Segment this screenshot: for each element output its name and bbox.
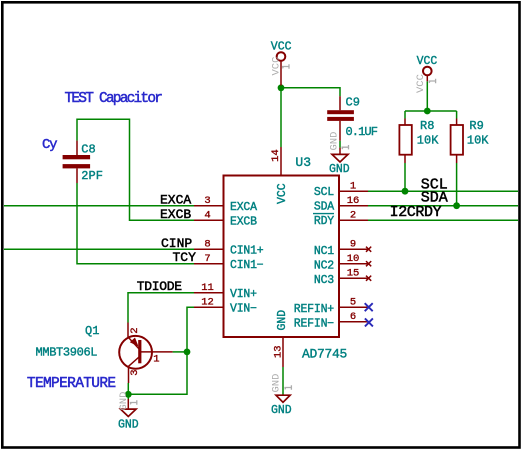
svg-text:EXCA: EXCA — [160, 192, 191, 207]
svg-text:SCL: SCL — [314, 186, 334, 199]
svg-text:1: 1 — [350, 181, 356, 193]
svg-text:4: 4 — [204, 210, 210, 222]
no-connect X pin6 — [365, 318, 373, 326]
pin 1 SCL — [339, 190, 368, 192]
no-connect x pin9 — [366, 247, 371, 252]
svg-text:TCY: TCY — [173, 250, 197, 265]
svg-text:7: 7 — [204, 253, 210, 265]
svg-text:15: 15 — [347, 268, 360, 280]
svg-text:CIN1−: CIN1− — [230, 259, 264, 272]
wire IC pin13 to gnd — [282, 367, 284, 395]
pin 10 NC2 — [339, 263, 368, 265]
node junction R9-SDA — [453, 202, 460, 209]
svg-text:VCC: VCC — [271, 40, 292, 53]
wire VCC right vertical — [426, 81, 428, 111]
svg-text:MMBT3906L: MMBT3906L — [36, 346, 98, 360]
ground symbol under Q1 — [118, 399, 139, 431]
svg-text:REFIN+: REFIN+ — [294, 303, 335, 316]
svg-text:VCC: VCC — [417, 55, 438, 68]
svg-text:TEMPERATURE: TEMPERATURE — [27, 376, 116, 392]
svg-text:TDIODE: TDIODE — [137, 279, 183, 294]
svg-text:U3: U3 — [295, 155, 311, 170]
pin 2 RDY — [339, 219, 368, 221]
svg-text:2: 2 — [129, 327, 141, 333]
svg-text:R8: R8 — [420, 119, 434, 133]
svg-text:EXCB: EXCB — [160, 207, 191, 222]
svg-text:GND: GND — [271, 374, 283, 393]
svg-text:REFIN−: REFIN− — [294, 317, 335, 330]
svg-text:VIN+: VIN+ — [230, 288, 257, 301]
svg-text:RDY: RDY — [314, 215, 334, 228]
svg-text:NC2: NC2 — [314, 259, 334, 272]
wire C9 bottom to gnd — [339, 141, 341, 148]
svg-text:10: 10 — [347, 253, 360, 265]
svg-text:10K: 10K — [467, 133, 489, 147]
resistor R8 — [404, 119, 406, 126]
svg-text:9: 9 — [350, 239, 356, 251]
svg-text:GND: GND — [118, 392, 130, 411]
power VCC left symbol — [271, 40, 292, 85]
svg-text:NC1: NC1 — [314, 245, 334, 258]
svg-text:11: 11 — [201, 282, 214, 294]
node junction Q1 base-collector — [184, 349, 191, 356]
svg-text:R9: R9 — [469, 119, 483, 133]
svg-text:CINP: CINP — [161, 236, 192, 251]
wire TDIODE to Q1 base — [128, 293, 194, 323]
ground symbol under IC pin13 — [271, 395, 292, 418]
pin 15 NC3 — [339, 277, 368, 279]
svg-text:GND: GND — [118, 418, 139, 431]
pin 8 CIN1+ — [194, 248, 224, 250]
svg-text:2PF: 2PF — [81, 169, 103, 183]
wire R8 top drop — [404, 111, 406, 119]
svg-text:Q1: Q1 — [85, 324, 99, 338]
svg-text:GND: GND — [271, 404, 292, 417]
svg-text:GND: GND — [329, 163, 350, 176]
capacitor C9 — [339, 96, 341, 110]
svg-text:VCC: VCC — [276, 183, 289, 204]
transistor Q1 — [119, 323, 172, 384]
node junction VCC-C9 — [278, 84, 285, 91]
wire CINP horizontal — [4, 248, 194, 250]
svg-text:SDA: SDA — [314, 201, 334, 214]
wire Q1 pin3 down — [127, 383, 129, 399]
power VCC right symbol — [417, 55, 438, 81]
svg-text:NC3: NC3 — [314, 274, 334, 287]
pin 16 SDA — [339, 205, 368, 207]
node junction Q1 emitter-gnd — [125, 391, 132, 398]
svg-text:8: 8 — [204, 239, 210, 251]
pin 7 CIN1- — [194, 263, 224, 265]
pin 11 VIN+ — [194, 292, 224, 294]
svg-text:0.1UF: 0.1UF — [346, 125, 378, 139]
svg-text:VIN−: VIN− — [230, 303, 257, 316]
svg-text:10K: 10K — [417, 133, 439, 147]
svg-text:VCC: VCC — [415, 74, 427, 93]
pin 13 GND bottom — [282, 337, 284, 367]
wire VCC to R8 R9 tops — [405, 110, 457, 112]
wire VCC to C9 — [281, 88, 340, 96]
wire SCL horizontal — [368, 190, 518, 192]
svg-text:14: 14 — [270, 149, 282, 162]
op IC U3 body — [224, 176, 340, 338]
svg-text:I2CRDY: I2CRDY — [390, 204, 442, 221]
no-connect X pin5 — [365, 303, 373, 311]
svg-text:3: 3 — [204, 195, 210, 207]
svg-text:16: 16 — [347, 195, 360, 207]
pin 4 EXCB — [194, 219, 224, 221]
svg-text:2: 2 — [350, 210, 356, 222]
wire Q1 pin1 to junction — [173, 351, 187, 353]
wire R9 top drop — [456, 111, 458, 119]
pin 14 VCC top — [280, 147, 282, 176]
svg-text:C9: C9 — [346, 95, 360, 109]
pin 12 VIN- — [194, 306, 224, 308]
pin 5 REFIN+ — [339, 306, 368, 308]
svg-text:CIN1+: CIN1+ — [230, 245, 264, 258]
wire SDA horizontal — [368, 205, 518, 207]
wire VIN- down to collector junction and gnd — [128, 307, 194, 394]
svg-text:12: 12 — [201, 297, 214, 309]
svg-text:3: 3 — [129, 369, 141, 375]
svg-text:VCC: VCC — [271, 57, 283, 76]
pin 3 EXCA — [194, 205, 224, 207]
resistor R9 — [456, 119, 458, 126]
wire R9 bottom to SDA — [456, 163, 458, 206]
capacitor C8 — [76, 141, 78, 155]
node junction VCC-R8R9 — [424, 108, 431, 115]
svg-text:AD7745: AD7745 — [302, 346, 347, 361]
svg-text:EXCB: EXCB — [230, 216, 257, 229]
node junction R8-SCL — [402, 188, 409, 195]
pin 6 REFIN- — [339, 321, 368, 323]
wire R8 bottom to SCL — [404, 163, 406, 191]
wire C8 top jog to EXCB — [77, 119, 194, 220]
svg-text:C8: C8 — [81, 142, 95, 156]
svg-text:GND: GND — [276, 310, 289, 331]
wire C8 bottom to TCY — [77, 183, 194, 264]
no-connect x pin15 — [366, 276, 371, 281]
wire I2CRDY horizontal — [368, 219, 518, 221]
svg-text:5: 5 — [350, 297, 356, 309]
pin 9 NC1 — [339, 248, 368, 250]
svg-text:1: 1 — [153, 354, 159, 366]
ground symbol under C9 — [329, 148, 350, 177]
wire EXCA horizontal — [4, 205, 194, 207]
svg-text:13: 13 — [272, 345, 284, 358]
wire VCC left vertical — [280, 86, 282, 148]
svg-text:TEST Capacitor: TEST Capacitor — [65, 91, 163, 107]
svg-text:6: 6 — [350, 311, 356, 323]
no-connect x pin10 — [366, 261, 371, 266]
svg-text:EXCA: EXCA — [230, 201, 257, 214]
svg-text:GND: GND — [329, 132, 341, 151]
svg-text:Cy: Cy — [42, 137, 57, 153]
